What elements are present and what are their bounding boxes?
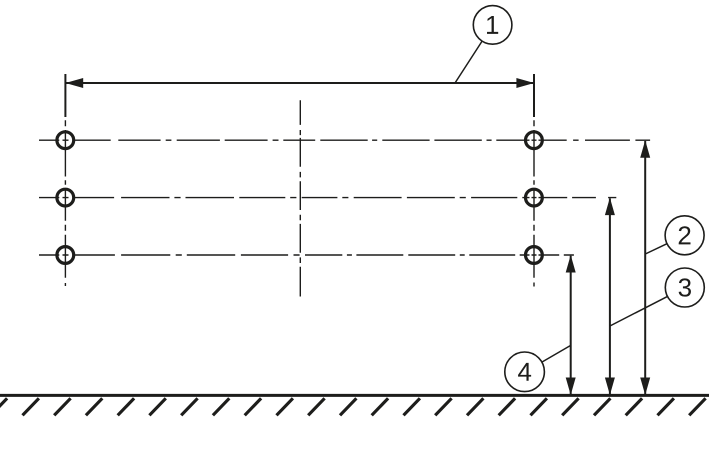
mounting hole middle-right (526, 189, 543, 206)
vertical centre line (middle of panel) (299, 100, 301, 296)
arrowhead bottom of dimension line 2 (640, 378, 650, 396)
centre line row 1 (horizontal chain line through top holes) (39, 139, 650, 141)
balloon circle 1 (473, 6, 512, 45)
arrowhead top of dimension line 3 (605, 198, 615, 216)
dimension line 1 (horizontal, top) (65, 82, 534, 84)
mounting hole bottom-right (526, 247, 543, 264)
dimension line 4 (vertical, shortest) (570, 256, 572, 395)
dimension line 3 (vertical, middle) (609, 198, 611, 394)
mounting hole middle-left (57, 189, 74, 206)
extension line right (solid part above top hole) (533, 74, 535, 117)
leader line to balloon 2 (645, 244, 667, 254)
arrowhead top of dimension line 2 (640, 140, 650, 158)
label 1 (487, 16, 498, 34)
leader line to balloon 3 (610, 296, 668, 326)
dimension line 2 (vertical, tallest) (644, 141, 646, 395)
centre line row 3 (horizontal chain line through bottom holes) (39, 254, 574, 256)
leader line to balloon 1 (455, 41, 482, 83)
arrowhead bottom of dimension line 3 (605, 378, 615, 396)
centre chain line through right holes (vertical) (533, 120, 535, 286)
centre chain line through left holes (vertical) (64, 120, 66, 286)
mounting hole top-left (57, 132, 74, 149)
label 4 (518, 363, 531, 381)
mounting hole top-right (526, 132, 543, 149)
centre line row 2 (horizontal chain line through middle holes) (39, 197, 616, 199)
label 2 (679, 226, 691, 244)
arrowhead bottom of dimension line 4 (566, 378, 576, 396)
arrowhead top of dimension line 4 (566, 255, 576, 273)
label 3 (679, 278, 691, 296)
arrowhead right of dimension line 1 (516, 78, 534, 88)
ground line (0, 394, 709, 397)
balloon circle 2 (665, 216, 704, 255)
arrowhead left of dimension line 1 (65, 78, 83, 88)
leader line to balloon 4 (542, 346, 570, 362)
balloon circle 4 (505, 352, 545, 392)
balloon circle 3 (665, 268, 704, 307)
mounting hole bottom-left (57, 247, 74, 264)
extension line left (solid part above top hole) (64, 74, 66, 117)
ground hatching (0, 398, 706, 415)
